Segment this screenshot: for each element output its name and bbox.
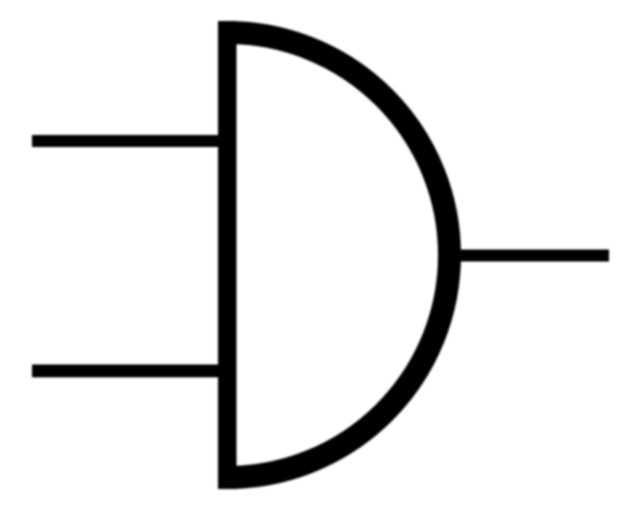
wire output (456, 250, 609, 262)
wire input A (top) (32, 135, 218, 147)
wire input B (bottom) (32, 365, 218, 378)
AND gate body semicircular arc (227, 33, 449, 478)
AND gate body flat back (vertical line) (218, 21, 237, 489)
